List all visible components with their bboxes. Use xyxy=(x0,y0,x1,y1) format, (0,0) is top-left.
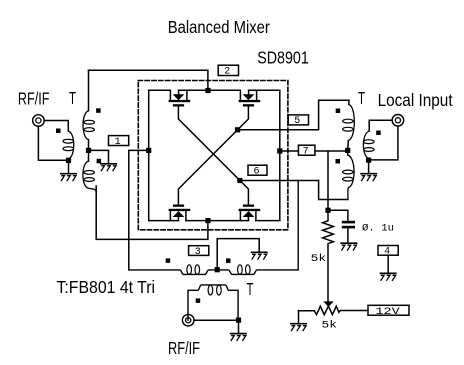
svg-text:T: T xyxy=(69,88,76,108)
svg-text:5k: 5k xyxy=(322,319,338,331)
svg-text:4: 4 xyxy=(384,247,390,258)
svg-text:2: 2 xyxy=(224,67,230,78)
svg-text:5: 5 xyxy=(294,116,300,127)
svg-text:5k: 5k xyxy=(311,253,327,265)
svg-text:12V: 12V xyxy=(375,307,399,318)
svg-text:SD8901: SD8901 xyxy=(257,48,309,68)
svg-text:RF/IF: RF/IF xyxy=(18,89,50,109)
svg-text:3: 3 xyxy=(195,247,201,258)
svg-text:T: T xyxy=(247,279,254,299)
svg-text:T:FB801 4t Tri: T:FB801 4t Tri xyxy=(57,277,156,297)
svg-text:Ø. 1u: Ø. 1u xyxy=(362,222,394,234)
svg-text:Local Input: Local Input xyxy=(378,90,453,110)
svg-text:RF/IF: RF/IF xyxy=(168,338,200,358)
svg-text:6: 6 xyxy=(253,166,259,177)
svg-text:1: 1 xyxy=(115,137,121,148)
svg-text:7: 7 xyxy=(303,146,309,157)
svg-text:T: T xyxy=(358,88,365,108)
svg-text:Balanced Mixer: Balanced Mixer xyxy=(168,17,270,37)
